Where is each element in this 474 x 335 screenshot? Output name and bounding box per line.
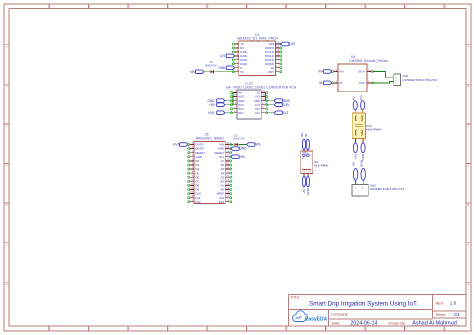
svg-text:A6: A6: [221, 163, 225, 167]
svg-text:F: F: [6, 243, 8, 247]
svg-text:8: 8: [325, 327, 327, 331]
net flag HV1 (LLC2 left): [208, 111, 225, 115]
svg-text:LV1: LV1: [255, 111, 260, 115]
svg-text:3V3: 3V3: [219, 196, 224, 200]
svg-text:A2: A2: [221, 179, 225, 183]
svg-text:GND: GND: [218, 147, 224, 151]
svg-text:1.0: 1.0: [450, 300, 457, 305]
svg-text:D: D: [6, 163, 9, 167]
svg-text:GA - MOD LOGIC LEVEL CONVERTER: GA - MOD LOGIC LEVEL CONVERTER 4CH: [226, 85, 297, 89]
svg-text:D: D: [467, 163, 470, 167]
net port GND (CN2 top): [359, 159, 365, 180]
svg-text:HLK-PM01: HLK-PM01: [314, 164, 329, 168]
svg-text:LV4: LV4: [255, 103, 260, 107]
net port N (PS1 top): [360, 95, 365, 110]
svg-text:LV2: LV2: [255, 107, 260, 111]
svg-text:+5V: +5V: [209, 103, 216, 107]
svg-text:D2(4): D2(4): [240, 54, 247, 58]
svg-text:D8: D8: [196, 184, 200, 188]
svg-text:E: E: [467, 203, 469, 207]
net flag IN- (U4): [319, 81, 332, 85]
svg-text:G: G: [240, 66, 242, 70]
net port +5V (CN2 top): [352, 161, 358, 180]
svg-text:G: G: [467, 282, 470, 286]
net flag +5V (U5): [231, 155, 246, 159]
svg-text:A3: A3: [221, 175, 225, 179]
net flag IN+ (U4): [318, 70, 331, 74]
wire U4 OUT+ to CN1 pin1: [373, 72, 394, 78]
wire CN2 pins: [356, 180, 364, 184]
svg-text:EasyEDA: EasyEDA: [305, 316, 328, 322]
svg-text:A: A: [6, 45, 8, 49]
svg-text:E: E: [6, 203, 8, 207]
wire U3 DC pins: [304, 174, 308, 176]
net port GND (PS1 bottom): [361, 143, 365, 161]
wire U5 VIN to D2: [231, 144, 234, 146]
svg-text:GND: GND: [361, 153, 365, 161]
svg-text:D6(12): D6(12): [265, 54, 274, 58]
net flag GND (U5): [231, 147, 248, 151]
svg-text:+: +: [302, 157, 304, 161]
svg-text:Sheet:: Sheet:: [436, 313, 446, 317]
svg-text:LV3: LV3: [255, 95, 260, 99]
svg-text:ACL: ACL: [352, 95, 355, 100]
power module PS1 HLK-PM04: [352, 113, 381, 139]
svg-text:HV1: HV1: [173, 143, 179, 147]
svg-text:IN+: IN+: [300, 132, 304, 137]
svg-text:+5V: +5V: [302, 188, 306, 193]
net flag VIN: [190, 70, 204, 74]
svg-text:GND: GND: [240, 147, 248, 151]
svg-text:GND: GND: [254, 99, 260, 103]
diode D1 1N4007W: [205, 60, 217, 73]
svg-text:A1: A1: [221, 184, 225, 188]
wire U3 AC pins: [304, 150, 308, 151]
net flag +5V (LLC2 left): [209, 103, 225, 107]
svg-text:D1/TX: D1/TX: [196, 143, 204, 147]
svg-text:D10: D10: [196, 192, 202, 196]
svg-text:HLK-PM04: HLK-PM04: [366, 128, 381, 132]
svg-text:GND: GND: [359, 159, 363, 167]
svg-text:IN-: IN-: [319, 81, 323, 85]
op-amp U5 ARDUINO_NANO: [188, 133, 232, 204]
svg-text:D0(16): D0(16): [265, 62, 274, 66]
svg-text:IN-: IN-: [339, 81, 343, 85]
net port IN+ (U3 top): [300, 132, 306, 150]
svg-text:TITLE:: TITLE:: [290, 296, 300, 300]
svg-text:3: 3: [128, 327, 130, 331]
svg-text:GND: GND: [196, 155, 202, 159]
svg-text:A7: A7: [221, 159, 225, 163]
net flag GND (LLC2 right): [274, 99, 291, 103]
svg-text:2: 2: [88, 327, 90, 331]
wire D1 to U1 5V pin: [215, 71, 234, 73]
wire VIN to D1: [204, 71, 210, 73]
svg-text:GND: GND: [283, 99, 291, 103]
power module U3 HLK-PM01: [301, 151, 329, 174]
svg-text:D13: D13: [219, 200, 225, 204]
svg-text:RESET: RESET: [196, 151, 206, 155]
svg-text:Company:: Company:: [331, 312, 348, 316]
wire D2 to VIN flag: [239, 144, 247, 146]
svg-text:3.3V: 3.3V: [283, 103, 290, 107]
wire PS1 AC pins: [355, 110, 362, 113]
wire PS1 DC pins: [355, 139, 363, 143]
net flag GND (LLC2 left): [208, 99, 225, 103]
net flag GND (U1 G): [218, 66, 234, 70]
net flag LV1 (U1 D2): [220, 54, 235, 58]
svg-text:5: 5: [207, 327, 209, 331]
svg-text:D2: D2: [234, 133, 238, 137]
svg-text:Drawn By:: Drawn By:: [388, 321, 406, 325]
svg-text:WEMOS_D1_MINI_PRO4: WEMOS_D1_MINI_PRO4: [237, 37, 278, 41]
svg-text:HV1: HV1: [238, 111, 244, 115]
svg-text:IN-: IN-: [304, 133, 308, 137]
op-amp U4 LM2596_Module_Rehan: [332, 55, 388, 92]
svg-text:D1: D1: [209, 60, 213, 64]
svg-text:GND: GND: [238, 99, 244, 103]
svg-text:F: F: [467, 243, 469, 247]
net port +5V (U3 bottom): [302, 176, 306, 194]
svg-text:D6: D6: [196, 175, 200, 179]
svg-text:D9: D9: [196, 188, 200, 192]
svg-text:VIN: VIN: [255, 143, 261, 147]
svg-text:10: 10: [404, 5, 408, 9]
svg-text:VIN: VIN: [190, 70, 196, 74]
svg-text:IN+: IN+: [339, 70, 344, 74]
net flag LV1 (LLC2 right): [274, 111, 288, 115]
svg-text:+5V: +5V: [352, 161, 356, 166]
svg-text:HV4: HV4: [238, 103, 244, 107]
svg-text:LV1: LV1: [283, 111, 289, 115]
svg-text:D7(13): D7(13): [265, 50, 274, 54]
svg-text:9: 9: [365, 327, 367, 331]
svg-text:D2: D2: [196, 159, 200, 163]
svg-text:Date:: Date:: [332, 321, 341, 325]
svg-text:7: 7: [286, 327, 288, 331]
svg-text:G: G: [5, 282, 8, 286]
svg-text:TX: TX: [240, 42, 244, 46]
svg-text:11: 11: [443, 327, 446, 331]
svg-text:OUT+: OUT+: [358, 70, 366, 74]
connector CN1 CONNECTOR 2 PIN 2.54: [394, 74, 437, 85]
svg-text:D5(14): D5(14): [265, 58, 274, 62]
svg-text:D8(15): D8(15): [265, 46, 274, 50]
svg-text:A4: A4: [221, 171, 225, 175]
connector CN2 CONNECTOR 2 PIN 2.54: [352, 184, 404, 196]
wire LLC2 flags: [225, 101, 274, 113]
svg-text:REV:: REV:: [436, 301, 444, 305]
svg-text:+5V: +5V: [219, 155, 224, 159]
svg-text:GND: GND: [208, 99, 216, 103]
svg-text:GND: GND: [306, 187, 310, 195]
svg-text:4: 4: [167, 327, 169, 331]
EasyEDA logo: [293, 311, 328, 323]
svg-text:+5V: +5V: [240, 155, 247, 159]
net port GND (U3 bottom): [306, 176, 310, 195]
svg-text:GND: GND: [218, 66, 226, 70]
op-amp U1 WEMOS_D1_MINI_PRO4: [232, 33, 281, 76]
wire U4 OUT- to CN1 pin2: [373, 82, 394, 83]
svg-text:RST: RST: [268, 70, 274, 74]
svg-text:3V3: 3V3: [269, 42, 274, 46]
svg-text:6: 6: [246, 327, 248, 331]
svg-text:1: 1: [49, 327, 51, 331]
wire LLC2 right bus: [265, 93, 267, 101]
net flag 3.3V (LLC2 right): [274, 103, 290, 107]
net port IN- (U3 top): [304, 133, 310, 150]
net port +5V (PS1 bottom): [353, 143, 357, 159]
wire LLC2 left bus: [232, 93, 234, 105]
svg-text:VIN: VIN: [219, 143, 224, 147]
title block: [289, 294, 466, 326]
svg-text:LM2596_Module_Rehan: LM2596_Module_Rehan: [349, 59, 387, 63]
net flag VIN (U5): [247, 143, 262, 147]
svg-text:D12: D12: [196, 200, 202, 204]
svg-text:CONNECTOR 2 PIN 2.54: CONNECTOR 2 PIN 2.54: [403, 78, 438, 82]
svg-text:5V: 5V: [240, 70, 244, 74]
svg-text:A5: A5: [221, 167, 225, 171]
op-amp LLC2 logic level converter: [226, 82, 297, 119]
diode D2 1N4007W: [232, 133, 244, 146]
svg-text:D1(5): D1(5): [240, 50, 247, 54]
svg-text:D3(0): D3(0): [240, 58, 247, 62]
svg-text:A0: A0: [271, 66, 275, 70]
svg-text:B: B: [467, 84, 469, 88]
svg-text:11: 11: [443, 5, 446, 9]
svg-text:Smart Drip Irrigation System U: Smart Drip Irrigation System Using IoT.: [309, 300, 418, 307]
net flag 3.3V (U1 3V3): [281, 42, 296, 46]
svg-text:HV1: HV1: [208, 111, 214, 115]
svg-text:ACN: ACN: [360, 95, 363, 100]
net port L (PS1 top): [352, 95, 357, 110]
svg-text:D0/RX: D0/RX: [196, 147, 204, 151]
svg-text:LV: LV: [257, 91, 260, 95]
svg-text:D7: D7: [196, 179, 200, 183]
svg-text:+Vo: +Vo: [302, 172, 305, 174]
svg-text:D3: D3: [196, 163, 200, 167]
net flag HV1 (U5 D1/TX): [173, 143, 188, 147]
svg-text:D5: D5: [196, 171, 200, 175]
svg-text:B: B: [6, 84, 8, 88]
svg-text:D4: D4: [196, 167, 200, 171]
svg-text:HV2: HV2: [238, 107, 244, 111]
svg-text:RX: RX: [240, 46, 244, 50]
svg-text:3.3V: 3.3V: [289, 42, 296, 46]
svg-text:D4(2): D4(2): [240, 62, 247, 66]
svg-text:+5V: +5V: [354, 154, 358, 159]
svg-text:HV3: HV3: [238, 95, 244, 99]
svg-text:A0: A0: [221, 188, 225, 192]
svg-text:A: A: [467, 45, 469, 49]
svg-text:10: 10: [404, 327, 408, 331]
svg-text:1/1: 1/1: [454, 312, 461, 317]
svg-text:OUT-: OUT-: [359, 81, 366, 85]
svg-text:CONNECTOR 2 PIN 2.54: CONNECTOR 2 PIN 2.54: [370, 187, 405, 191]
svg-text:ARDUINO_NANO: ARDUINO_NANO: [196, 136, 224, 140]
svg-text:RESET: RESET: [215, 151, 225, 155]
svg-text:AREF: AREF: [216, 192, 224, 196]
svg-text:-Vo: -Vo: [309, 172, 312, 174]
svg-text:U4: U4: [351, 55, 355, 59]
svg-text:LV1: LV1: [220, 54, 226, 58]
svg-text:HV: HV: [238, 91, 242, 95]
svg-text:IN+: IN+: [318, 70, 323, 74]
svg-text:D11: D11: [196, 196, 201, 200]
